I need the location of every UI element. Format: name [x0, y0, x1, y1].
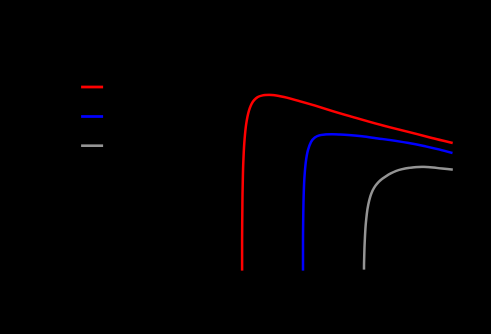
legend blue swatch — [81, 115, 103, 118]
red curve — [242, 95, 453, 271]
legend gray swatch — [81, 144, 103, 147]
legend red swatch — [81, 86, 103, 89]
blue curve — [303, 134, 453, 270]
gray curve — [364, 167, 453, 270]
